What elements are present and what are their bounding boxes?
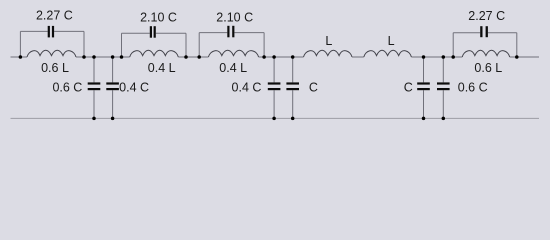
- wire: bridge 2 right vertical: [185, 33, 187, 57]
- wire: shunt 6 verticals: [442, 57, 444, 118]
- svg-text:L: L: [325, 34, 332, 48]
- wire: bridge 1 top left: [20, 30, 47, 32]
- node: shunt6 top: [442, 55, 446, 59]
- wire: top rail segment n6-L3: [178, 56, 208, 58]
- node: shunt4 top: [291, 55, 295, 59]
- wire: bridge 1 right vertical: [83, 31, 85, 57]
- wire: left input lead: [11, 56, 21, 58]
- wire: bridge 2 left vertical: [121, 33, 123, 57]
- wire: top rail segment L5-L6: [411, 56, 462, 58]
- node: section6 right: [515, 55, 519, 59]
- node: shunt5 top: [422, 55, 426, 59]
- wire: bridge 3 top left: [199, 32, 227, 34]
- wire: bridge 1 left vertical: [19, 31, 21, 57]
- node: section2 right: [184, 55, 188, 59]
- capacitor 0.4 C (shunt 3) plates: [268, 82, 281, 84]
- node: section3 left: [197, 55, 201, 59]
- capacitor 0.6 C (shunt 6) plates: [437, 82, 450, 84]
- inductor 0.4 L (second): [130, 50, 179, 57]
- wire: between L4 and L5: [352, 56, 364, 58]
- svg-text:2.27 C: 2.27 C: [468, 9, 505, 23]
- capacitor 2.27 C (top-right) plates: [480, 26, 482, 37]
- inductor 0.6 L (sixth): [462, 50, 510, 57]
- svg-text:0.4 L: 0.4 L: [219, 61, 247, 75]
- capacitor 2.10 C (second) plates: [150, 26, 152, 38]
- svg-text:0.4 C: 0.4 C: [232, 81, 262, 95]
- svg-text:0.6 L: 0.6 L: [474, 61, 502, 75]
- node: section3 right: [262, 55, 266, 59]
- inductor 0.4 L (third): [208, 50, 258, 57]
- wire: n1 to L1: [20, 56, 27, 58]
- svg-text:2.27 C: 2.27 C: [36, 9, 73, 23]
- svg-text:0.6 C: 0.6 C: [458, 81, 488, 95]
- svg-text:0.6 L: 0.6 L: [41, 61, 69, 75]
- svg-text:0.4 L: 0.4 L: [148, 61, 176, 75]
- svg-text:L: L: [388, 34, 395, 48]
- wire: shunt 3 verticals: [273, 57, 275, 118]
- capacitor 2.27 C (top-left) plates: [48, 26, 50, 38]
- capacitor C (shunt 5) plates: [417, 82, 430, 84]
- wire: bridge 4 top left: [453, 32, 480, 34]
- node: section6 left: [451, 55, 455, 59]
- inductor L (fifth): [364, 50, 412, 57]
- capacitor 0.4 C (shunt 2) plates: [106, 82, 119, 84]
- node: shunt4 bottom: [291, 117, 295, 121]
- inductor L (fourth): [304, 50, 353, 57]
- wire: shunt 1 verticals: [93, 57, 95, 118]
- wire: bridge 3 left vertical: [198, 33, 200, 57]
- svg-text:C: C: [309, 81, 318, 95]
- wire: bridge 2 top right: [156, 32, 186, 34]
- capacitor 2.10 C (third) plates: [227, 26, 229, 38]
- wire: right output lead: [510, 56, 539, 58]
- node: section1 right: [82, 55, 86, 59]
- svg-text:0.6 C: 0.6 C: [52, 81, 82, 95]
- capacitor C (shunt 4) plates: [286, 82, 299, 84]
- wire: bridge 3 top right: [234, 32, 264, 34]
- wire: bridge 3 right vertical: [263, 33, 265, 57]
- wire: shunt 2 verticals: [112, 57, 114, 118]
- wire: bottom ground rail: [11, 117, 540, 119]
- wire: shunt 4 verticals: [292, 57, 294, 118]
- node: section2 left: [120, 55, 124, 59]
- wire: bridge 1 top right: [54, 30, 84, 32]
- svg-text:2.10 C: 2.10 C: [140, 11, 177, 25]
- wire: top rail segment n8-L4: [259, 56, 304, 58]
- node: shunt1 top: [92, 55, 96, 59]
- node: shunt5 bottom: [422, 117, 426, 121]
- svg-text:2.10 C: 2.10 C: [216, 11, 253, 25]
- wire: bridge 4 right vertical: [516, 33, 518, 57]
- node: shunt1 bottom: [92, 117, 96, 121]
- svg-text:0.4 C: 0.4 C: [119, 81, 149, 95]
- svg-text:C: C: [404, 81, 413, 95]
- wire: bridge 4 top right: [488, 32, 517, 34]
- node: shunt3 top: [272, 55, 276, 59]
- wire: shunt 5 verticals: [423, 57, 425, 118]
- node: shunt2 bottom: [111, 117, 115, 121]
- node: shunt3 bottom: [272, 117, 276, 121]
- wire: top rail segment n2-L2: [76, 56, 130, 58]
- wire: bridge 2 top left: [122, 32, 150, 34]
- node: shunt6 bottom: [442, 117, 446, 121]
- node: input junction: [19, 55, 23, 59]
- inductor 0.6 L (first): [27, 50, 76, 57]
- wire: bridge 4 left vertical: [452, 33, 454, 57]
- capacitor 0.6 C (shunt 1) plates: [88, 82, 101, 84]
- node: shunt2 top: [111, 55, 115, 59]
